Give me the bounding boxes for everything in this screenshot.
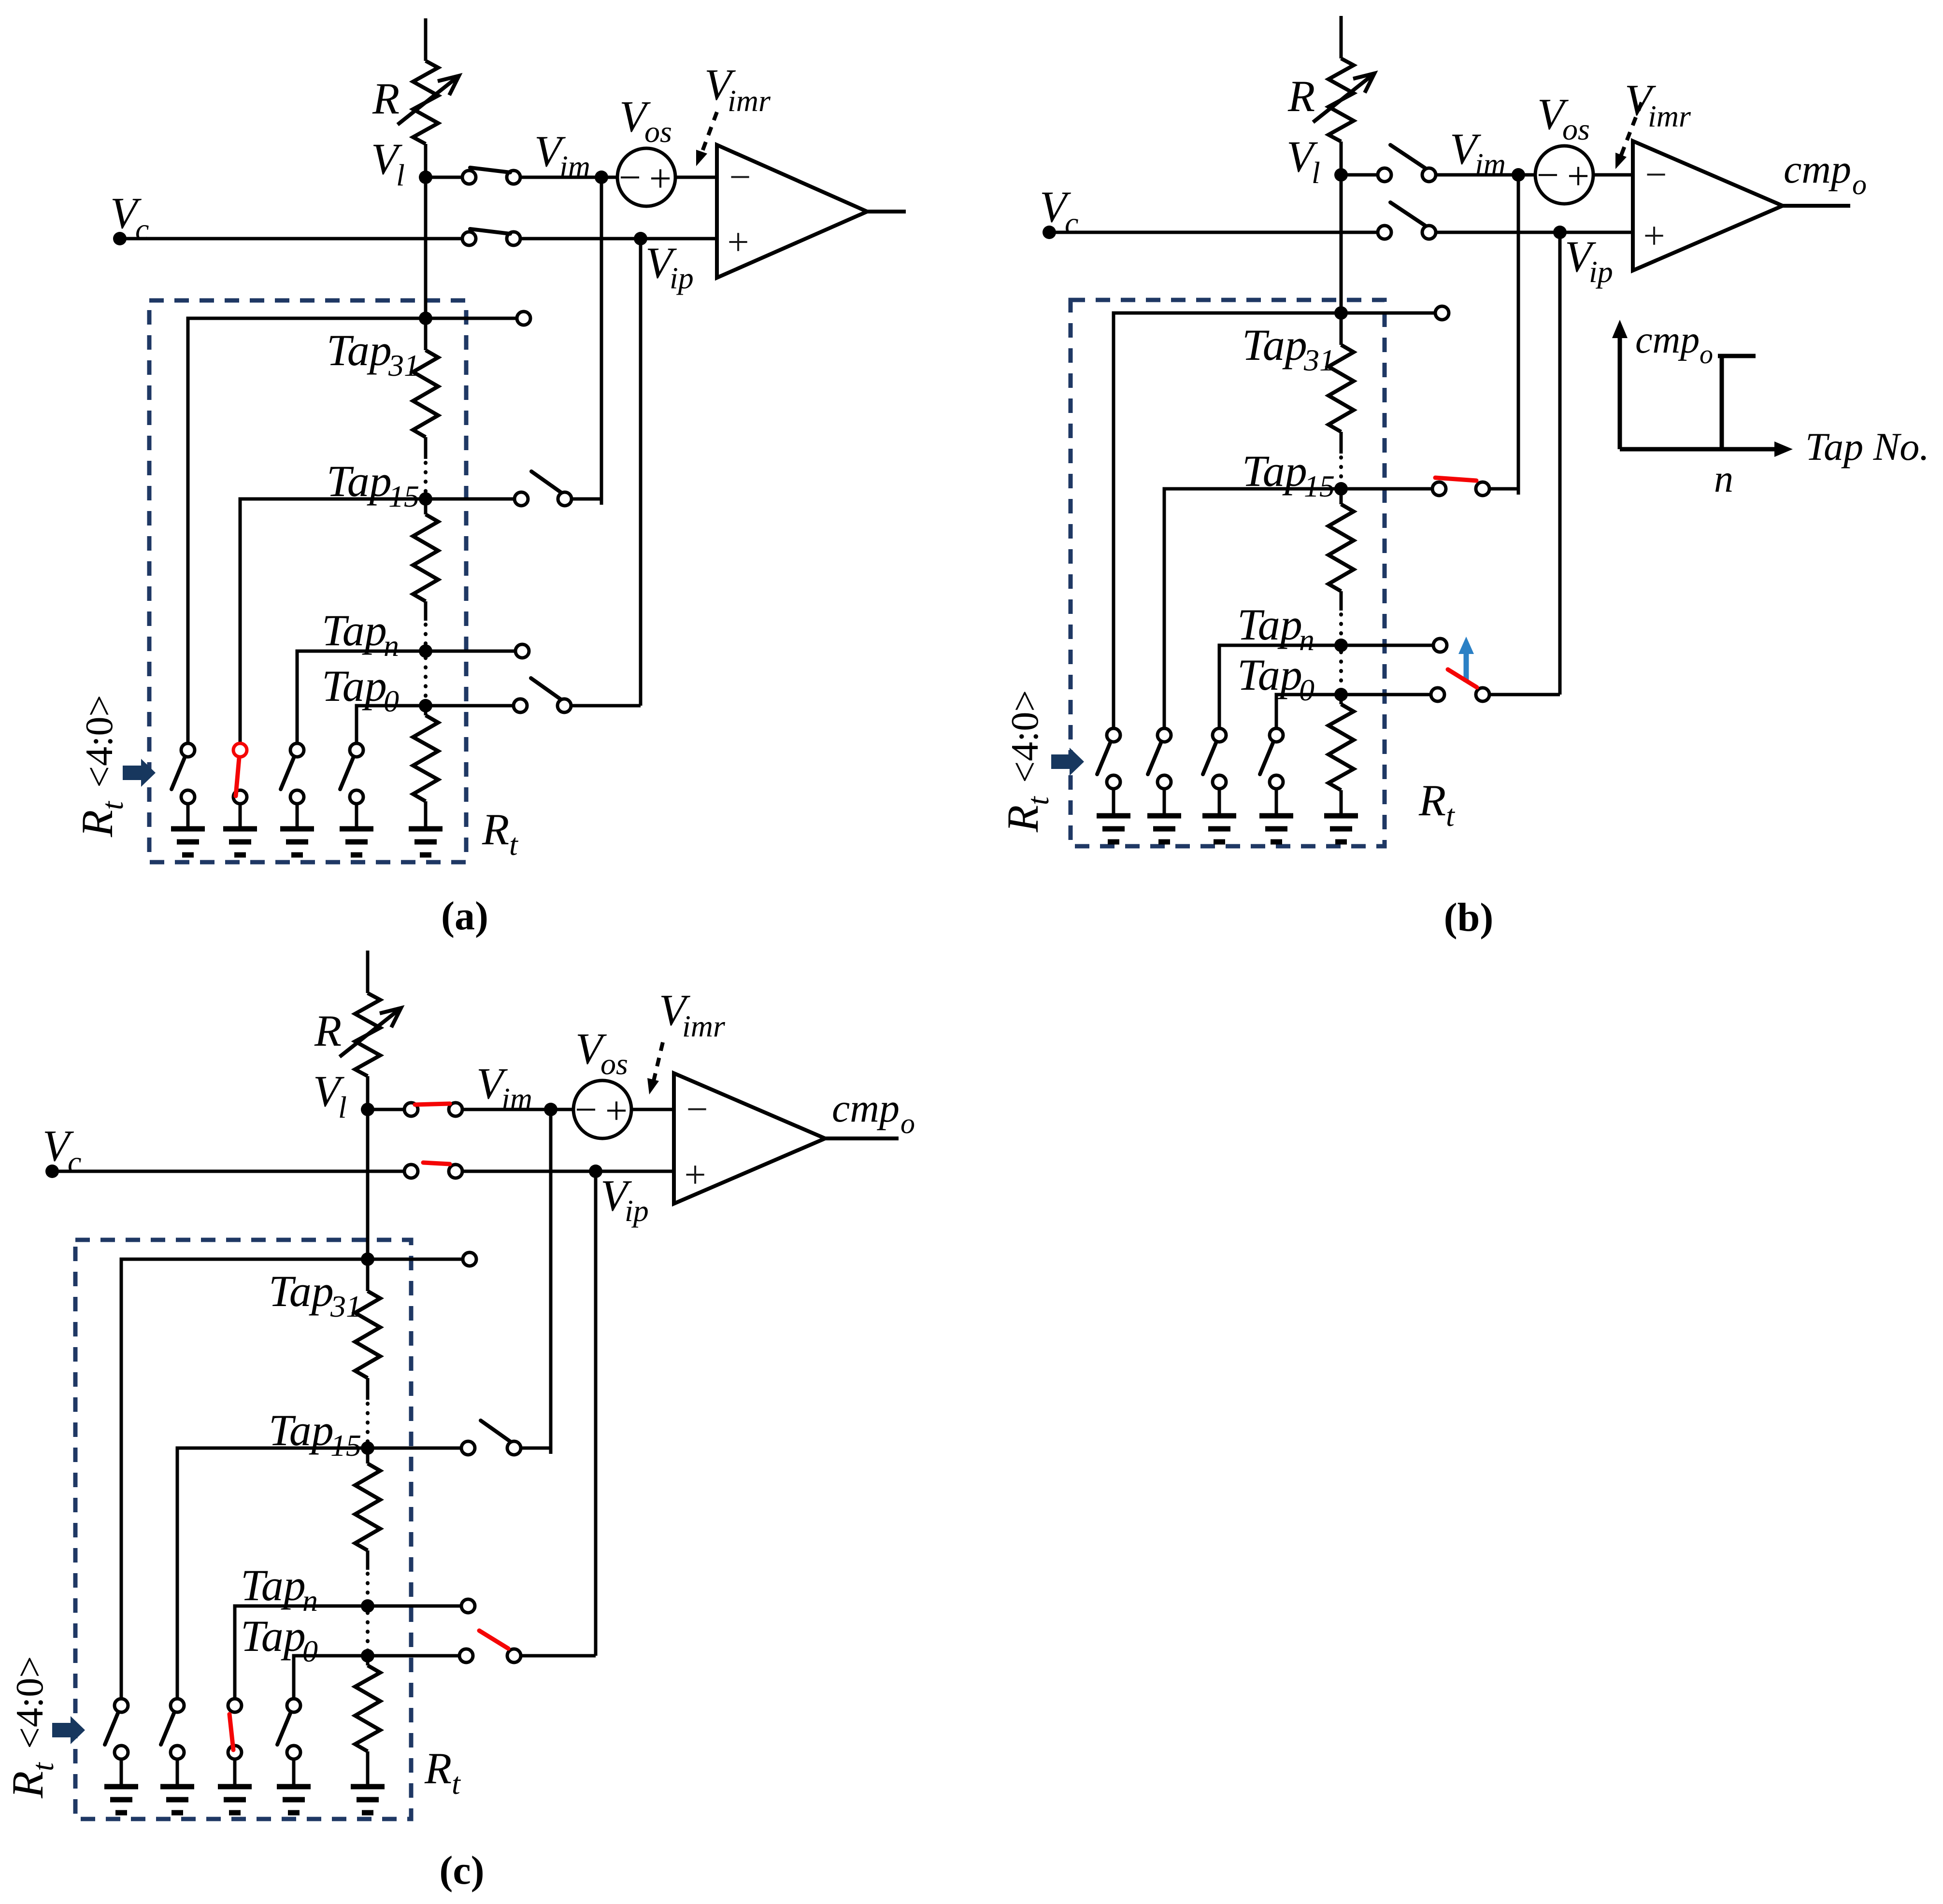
wire Tap15 to switch (c)	[368, 1447, 462, 1450]
node V_l (a)	[419, 171, 432, 184]
wire Tapn to contact (b)	[1341, 644, 1434, 647]
bank switch 3 ground stem (c)	[233, 1759, 237, 1787]
node V_ip (c)	[589, 1165, 602, 1178]
svg-text:cmp: cmp	[1784, 147, 1851, 192]
dashed box R_t network (b)	[1071, 300, 1385, 846]
wire Tapn to bank switch 3 (a)	[297, 651, 426, 743]
svg-text:31: 31	[330, 1289, 361, 1323]
bank switch 3 lever (b)	[1203, 743, 1216, 774]
svg-text:15: 15	[330, 1428, 361, 1463]
label R_t<4:0> (c)	[3, 1656, 60, 1799]
svg-text:l: l	[396, 158, 405, 192]
bank switch 1 lever (c)	[105, 1713, 118, 1745]
wire Tap0 switch to V_ip line (a)	[571, 704, 641, 708]
bank switch 2 ground stem (c)	[176, 1759, 179, 1787]
switch S3 Tap15 lever (a)	[531, 471, 561, 493]
svg-text:−: −	[575, 1088, 597, 1132]
node Tap0 (c)	[361, 1649, 374, 1662]
dotted ladder continuation above Tap15 (c)	[366, 1404, 370, 1444]
switch S4 Tap0 lever (a)	[531, 678, 561, 699]
svg-text:c: c	[1065, 206, 1078, 240]
svg-text:o: o	[900, 1108, 915, 1139]
switch S3 Tap15 lever (b)	[1435, 478, 1476, 481]
node V_ip (b)	[1553, 226, 1567, 239]
svg-text:−: −	[1537, 153, 1559, 197]
node V_l (c)	[361, 1103, 374, 1116]
offset source V_os (b)	[1535, 146, 1593, 204]
svg-text:(c): (c)	[439, 1848, 484, 1893]
svg-text:+: +	[1567, 154, 1589, 198]
node V_l (b)	[1334, 168, 1348, 182]
switch S4 Tap0 lever (c)	[479, 1631, 508, 1648]
bank switch 2 contacts (c)	[171, 1699, 184, 1712]
svg-text:Tap: Tap	[241, 1611, 306, 1661]
svg-text:R: R	[3, 1771, 52, 1799]
svg-text:t: t	[1021, 796, 1055, 805]
resistor R_t (b)	[1340, 695, 1343, 704]
svg-text:cmp: cmp	[1635, 319, 1700, 361]
graph axes cmp_o vs Tap No. (b)	[1618, 327, 1622, 449]
switch S3 Tap15 contacts (a)	[514, 492, 528, 506]
comparator output wire (b)	[1783, 204, 1850, 208]
comparator U1 (c)	[674, 1073, 825, 1204]
bank switch 4 lever (c)	[277, 1713, 290, 1745]
svg-text:0: 0	[1299, 673, 1314, 707]
svg-text:15: 15	[388, 479, 419, 513]
svg-text:−: −	[729, 156, 751, 199]
dotted ladder Tapn-Tap0 (a)	[424, 658, 428, 701]
resistor ladder segment Tap15-Tapn (c)	[366, 1448, 370, 1464]
node V_c (a)	[113, 232, 127, 245]
wire Tap31 to bank switch 1 (c)	[121, 1259, 368, 1699]
comparator U1 (b)	[1633, 141, 1783, 270]
svg-text:Tap: Tap	[322, 661, 387, 710]
switch S4 Tap0 contacts (c)	[459, 1649, 473, 1662]
wire V_l to switch S1 (a)	[426, 176, 462, 179]
wire switch S2 to comparator plus input (c)	[462, 1170, 674, 1173]
wire Tap0 to bank switch 4 (c)	[294, 1656, 368, 1699]
bank switch 3 lever (a)	[281, 758, 294, 789]
dashed box R_t network (c)	[75, 1240, 411, 1819]
node Tap0 (a)	[419, 699, 432, 712]
wire Tap15 to bank switch 2 (b)	[1164, 489, 1341, 728]
bank switch 3 ground stem (b)	[1218, 789, 1221, 816]
svg-text:R: R	[372, 74, 400, 123]
bank switch 1 ground stem (a)	[186, 804, 190, 829]
ground bank switch 1 (a)	[171, 826, 205, 832]
bank switch 3 contacts (a)	[290, 743, 304, 757]
switch S2 lever (c)	[423, 1163, 450, 1164]
svg-text:−: −	[686, 1088, 708, 1131]
switch contact Tap31 (c)	[463, 1252, 476, 1266]
node V_c (c)	[45, 1165, 59, 1178]
switch contact Tapn (b)	[1433, 639, 1447, 652]
svg-text:15: 15	[1304, 469, 1335, 503]
node Tap31 (a)	[419, 312, 432, 325]
svg-text:im: im	[559, 149, 590, 184]
svg-text:l: l	[1312, 156, 1320, 190]
svg-text:t: t	[509, 827, 519, 862]
svg-text:t: t	[452, 1766, 461, 1801]
wire V_c to switch S2 (a)	[120, 237, 462, 241]
bank switch 1 contacts (b)	[1107, 728, 1120, 742]
svg-text:ip: ip	[1589, 255, 1613, 289]
input arrow R_t<4:0> (c)	[52, 1716, 85, 1744]
wire V_im down to Tap15 switch (a)	[600, 177, 603, 505]
svg-text:+: +	[649, 156, 671, 200]
svg-text:R: R	[1418, 776, 1446, 825]
ground bank switch 4 (c)	[277, 1784, 311, 1790]
switch S4 Tap0 contacts (b)	[1431, 688, 1444, 701]
wire switch S1 to comparator minus input (c)	[462, 1108, 674, 1111]
bank switch 2 ground stem (b)	[1163, 789, 1166, 816]
svg-text:31: 31	[388, 348, 419, 383]
bank switch 1 contacts (c)	[114, 1699, 128, 1712]
svg-text:imr: imr	[1648, 99, 1691, 133]
ground under R_t (c)	[351, 1784, 385, 1790]
bank switch 3 contacts (b)	[1213, 728, 1226, 742]
wire Tap15 switch to V_im line (b)	[1489, 487, 1518, 491]
svg-text:<4:0>: <4:0>	[78, 695, 121, 796]
wire Tap15 to bank switch 2 (a)	[240, 499, 426, 743]
svg-text:ip: ip	[625, 1194, 649, 1228]
graph step waveform (b)	[1718, 354, 1756, 358]
wire Tap31 to contact (b)	[1341, 312, 1436, 315]
resistor R (a)	[413, 61, 438, 144]
svg-text:ip: ip	[670, 261, 694, 295]
comparator output wire (c)	[825, 1137, 899, 1140]
bank switch 2 lever (b)	[1148, 743, 1161, 774]
dashed arrow V_imr (b)	[1620, 102, 1642, 157]
node Tap15 (a)	[419, 492, 432, 506]
svg-text:c: c	[135, 212, 149, 246]
variable-resistor arrow through R (a)	[398, 76, 459, 125]
bank switch 3 contacts (c)	[228, 1699, 242, 1712]
bank switch 3 ground stem (a)	[296, 804, 299, 829]
switch S2 contacts (c)	[404, 1165, 418, 1178]
svg-text:31: 31	[1303, 343, 1335, 377]
ground bank switch 2 (c)	[160, 1784, 194, 1790]
resistor R_t (a)	[424, 706, 428, 715]
ground bank switch 2 (a)	[223, 826, 257, 832]
dotted ladder Tapn-Tap0 (b)	[1339, 652, 1343, 690]
wire top stub (c)	[366, 951, 370, 993]
resistor ladder segment Tap31-Tap15 (c)	[366, 1259, 370, 1291]
switch S1 contacts (a)	[462, 171, 476, 184]
switch S1 lever (b)	[1390, 145, 1425, 168]
switch S2 lever (b)	[1390, 202, 1425, 226]
ground under R_t (a)	[409, 826, 443, 832]
bank switch 4 ground stem (c)	[292, 1759, 296, 1787]
svg-text:0: 0	[384, 684, 399, 718]
offset source V_os (c)	[573, 1080, 631, 1138]
bank switch 4 contacts (c)	[287, 1699, 300, 1712]
node V_im (b)	[1512, 168, 1525, 182]
blue transition arrow (b)	[1464, 648, 1469, 682]
svg-text:+: +	[605, 1089, 628, 1133]
switch S3 Tap15 lever (c)	[481, 1421, 511, 1442]
wire Tap0 to switch (b)	[1341, 693, 1431, 696]
svg-text:R: R	[998, 805, 1047, 833]
node Tapn (b)	[1334, 639, 1348, 652]
wire Tap15 switch to V_im line (c)	[521, 1447, 551, 1450]
dashed box R_t network (a)	[149, 300, 466, 862]
bank switch 4 contacts (b)	[1270, 728, 1283, 742]
bank switch 4 contacts (a)	[350, 743, 363, 757]
node Tapn (a)	[419, 644, 432, 658]
switch S1 lever (c)	[415, 1104, 450, 1105]
svg-text:t: t	[1446, 798, 1456, 833]
svg-text:(a): (a)	[441, 894, 488, 938]
svg-text:−: −	[1645, 154, 1667, 196]
input arrow R_t<4:0> (b)	[1051, 748, 1084, 776]
switch S3 Tap15 contacts (b)	[1432, 482, 1446, 496]
dashed arrow V_imr (a)	[701, 112, 717, 154]
wire V_c to switch S2 (b)	[1049, 231, 1378, 234]
dashed arrow V_imr (c)	[653, 1042, 663, 1083]
switch contact Tap31 (b)	[1435, 306, 1449, 320]
wire Tapn to contact (a)	[426, 650, 516, 653]
switch S3 Tap15 contacts (c)	[461, 1441, 475, 1455]
wire switch S1 to comparator minus input (a)	[520, 176, 717, 179]
svg-text:R: R	[424, 1744, 452, 1793]
switch contact Tap31 (a)	[517, 312, 530, 325]
svg-text:−: −	[619, 156, 641, 199]
svg-text:Tap: Tap	[269, 1266, 334, 1316]
switch S1 contacts (c)	[404, 1103, 418, 1116]
wire Tap0 to switch (c)	[368, 1654, 460, 1658]
bank switch 2 contacts (a)	[233, 743, 247, 757]
resistor R_t (c)	[366, 1656, 370, 1665]
switch S1 contacts (b)	[1378, 168, 1391, 182]
wire V_ip down to Tap0 switch (b)	[1558, 232, 1562, 695]
wire Tap31 to bank switch 1 (b)	[1114, 313, 1341, 728]
switch S2 contacts (b)	[1378, 226, 1391, 239]
ground bank switch 3 (b)	[1202, 813, 1236, 819]
svg-text:0: 0	[302, 1634, 318, 1668]
wire V_im down to Tap15 switch (b)	[1517, 175, 1520, 495]
wire switch S2 to comparator plus input (b)	[1436, 231, 1633, 234]
resistor R (c)	[355, 993, 380, 1076]
bank switch 1 ground stem (c)	[120, 1759, 123, 1787]
resistor ladder segment Tap15-Tapn (b)	[1340, 489, 1343, 504]
wire Tap0 to bank switch 4 (b)	[1276, 695, 1341, 728]
wire ladder V_l to Tap31 (c)	[366, 1109, 370, 1259]
resistor ladder segment Tap15-Tapn (a)	[424, 499, 428, 514]
wire Tap31 to bank switch 1 (a)	[188, 318, 426, 743]
svg-text:imr: imr	[682, 1009, 726, 1043]
wire Tap15 to switch (b)	[1341, 487, 1433, 491]
node Tapn (c)	[361, 1599, 374, 1613]
node Tap31 (b)	[1334, 306, 1348, 320]
wire ladder V_l to Tap31 (a)	[424, 177, 428, 318]
ground under R_t (b)	[1324, 813, 1358, 819]
wire top stub (b)	[1340, 16, 1343, 58]
wire Tap0 to bank switch 4 (a)	[357, 706, 426, 743]
svg-text:cmp: cmp	[832, 1086, 900, 1131]
svg-text:o: o	[1700, 340, 1713, 369]
comparator output wire (a)	[867, 210, 906, 213]
dotted ladder continuation above Tapn (a)	[424, 625, 428, 648]
wire V_ip down to Tap0 switch (c)	[594, 1171, 598, 1656]
svg-text:o: o	[1852, 169, 1867, 200]
dotted ladder continuation above Tap15 (b)	[1339, 457, 1343, 485]
wire switch S1 to comparator minus input (b)	[1436, 173, 1633, 177]
bank switch 4 lever (b)	[1260, 743, 1273, 774]
wire Tap0 switch to V_ip line (c)	[521, 1654, 596, 1658]
bank switch 1 lever (a)	[171, 758, 185, 789]
svg-text:Tap: Tap	[241, 1561, 306, 1610]
switch S2 contacts (a)	[462, 232, 476, 245]
svg-text:t: t	[95, 800, 129, 810]
dotted ladder continuation above Tapn (b)	[1339, 614, 1343, 642]
svg-text:Tap: Tap	[322, 606, 387, 655]
comparator U1 (a)	[717, 145, 867, 278]
wire ladder V_l to Tap31 (b)	[1340, 175, 1343, 313]
node Tap0 (b)	[1334, 688, 1348, 701]
wire Tapn to bank switch 3 (b)	[1219, 645, 1341, 728]
node V_ip (a)	[634, 232, 647, 245]
switch S4 Tap0 contacts (a)	[514, 699, 527, 712]
wire Tap31 to contact (c)	[368, 1258, 463, 1261]
svg-text:im: im	[1475, 147, 1506, 181]
wire V_c to switch S2 (c)	[52, 1170, 404, 1173]
svg-text:l: l	[338, 1090, 347, 1124]
node V_im (c)	[544, 1103, 557, 1116]
svg-text:Tap No.: Tap No.	[1805, 425, 1929, 469]
resistor R (b)	[1329, 58, 1354, 142]
svg-text:R: R	[72, 810, 122, 838]
wire switch S2 to comparator plus input (a)	[520, 237, 717, 241]
svg-text:R: R	[482, 805, 509, 854]
label R_t<4:0> (b)	[998, 690, 1055, 833]
node Tap15 (b)	[1334, 482, 1348, 496]
svg-text:<4:0>: <4:0>	[9, 1656, 51, 1757]
wire Tapn to bank switch 3 (c)	[235, 1606, 368, 1699]
resistor ladder segment Tap31-Tap15 (a)	[424, 318, 428, 350]
svg-text:Tap: Tap	[327, 326, 392, 375]
svg-text:t: t	[26, 1762, 60, 1771]
wire Tapn to contact (c)	[368, 1605, 462, 1608]
switch S2 lever (a)	[470, 229, 510, 234]
wire Tap15 switch to V_im line (a)	[571, 497, 601, 501]
svg-text:Tap: Tap	[1237, 650, 1302, 699]
switch contact Tapn (a)	[515, 644, 529, 658]
svg-text:os: os	[644, 114, 672, 149]
svg-text:Tap: Tap	[1242, 320, 1307, 369]
wire Tap15 to bank switch 2 (c)	[177, 1448, 368, 1699]
resistor ladder segment Tap31-Tap15 (b)	[1340, 313, 1343, 345]
input arrow R_t<4:0> (a)	[123, 759, 156, 787]
label R_t<4:0> (a)	[72, 695, 129, 838]
svg-text:imr: imr	[728, 84, 771, 118]
wire Tap0 switch to V_ip line (b)	[1489, 693, 1560, 696]
wire V_ip down to Tap0 switch (a)	[639, 239, 643, 706]
ground bank switch 4 (a)	[340, 826, 373, 832]
switch S4 Tap0 lever (b)	[1448, 669, 1477, 687]
dotted ladder Tapn-Tap0 (c)	[366, 1613, 370, 1651]
wire V_im down to Tap15 switch (c)	[549, 1109, 553, 1454]
switch contact Tapn (c)	[461, 1599, 475, 1613]
bank switch 4 lever (a)	[340, 758, 353, 789]
offset source V_os (a)	[617, 148, 675, 206]
node V_c (b)	[1043, 226, 1056, 239]
bank switch 3 lever (c)	[229, 1714, 233, 1750]
wire Tap31 to contact (a)	[426, 317, 517, 320]
ground bank switch 3 (c)	[218, 1784, 252, 1790]
dotted ladder continuation above Tapn (c)	[366, 1574, 370, 1603]
wire V_l to switch S1 (b)	[1341, 173, 1378, 177]
bank switch 4 ground stem (b)	[1275, 789, 1278, 816]
bank switch 1 ground stem (b)	[1112, 789, 1115, 816]
wire Tap15 to switch (a)	[426, 497, 515, 501]
wire top stub (a)	[424, 18, 428, 61]
ground bank switch 3 (a)	[280, 826, 314, 832]
bank switch 1 lever (b)	[1097, 743, 1110, 774]
switch S1 lever (a)	[470, 168, 510, 172]
variable-resistor arrow through R (b)	[1313, 73, 1374, 122]
ground bank switch 2 (b)	[1147, 813, 1181, 819]
svg-text:R: R	[1287, 71, 1315, 121]
node Tap31 (c)	[361, 1252, 374, 1266]
dotted ladder continuation above Tap15 (a)	[424, 463, 428, 495]
bank switch 2 lever (c)	[161, 1713, 174, 1745]
svg-text:R: R	[314, 1006, 342, 1055]
svg-text:os: os	[1562, 112, 1590, 146]
ground bank switch 1 (c)	[104, 1784, 138, 1790]
svg-text:<4:0>: <4:0>	[1004, 690, 1046, 791]
svg-text:Tap: Tap	[1237, 600, 1302, 649]
svg-text:os: os	[600, 1047, 628, 1081]
node V_im (a)	[595, 171, 608, 184]
ground bank switch 4 (b)	[1259, 813, 1293, 819]
svg-text:+: +	[684, 1154, 706, 1196]
svg-text:n: n	[384, 628, 399, 663]
bank switch 1 contacts (a)	[181, 743, 195, 757]
wire V_l to switch S1 (c)	[368, 1108, 404, 1111]
bank switch 2 contacts (b)	[1157, 728, 1171, 742]
bank switch 4 ground stem (a)	[355, 804, 358, 829]
node Tap15 (c)	[361, 1441, 374, 1455]
svg-text:+: +	[1643, 215, 1665, 257]
svg-text:+: +	[727, 221, 749, 264]
bank switch 2 ground stem (a)	[239, 804, 242, 829]
bank switch 2 lever (a)	[236, 758, 239, 796]
wire Tap0 to switch (a)	[426, 704, 514, 708]
svg-text:(b): (b)	[1444, 895, 1494, 940]
variable-resistor arrow through R (c)	[340, 1008, 401, 1057]
ground bank switch 1 (b)	[1097, 813, 1130, 819]
svg-text:c: c	[68, 1145, 81, 1179]
svg-text:im: im	[501, 1081, 532, 1116]
svg-text:n: n	[1714, 458, 1733, 500]
